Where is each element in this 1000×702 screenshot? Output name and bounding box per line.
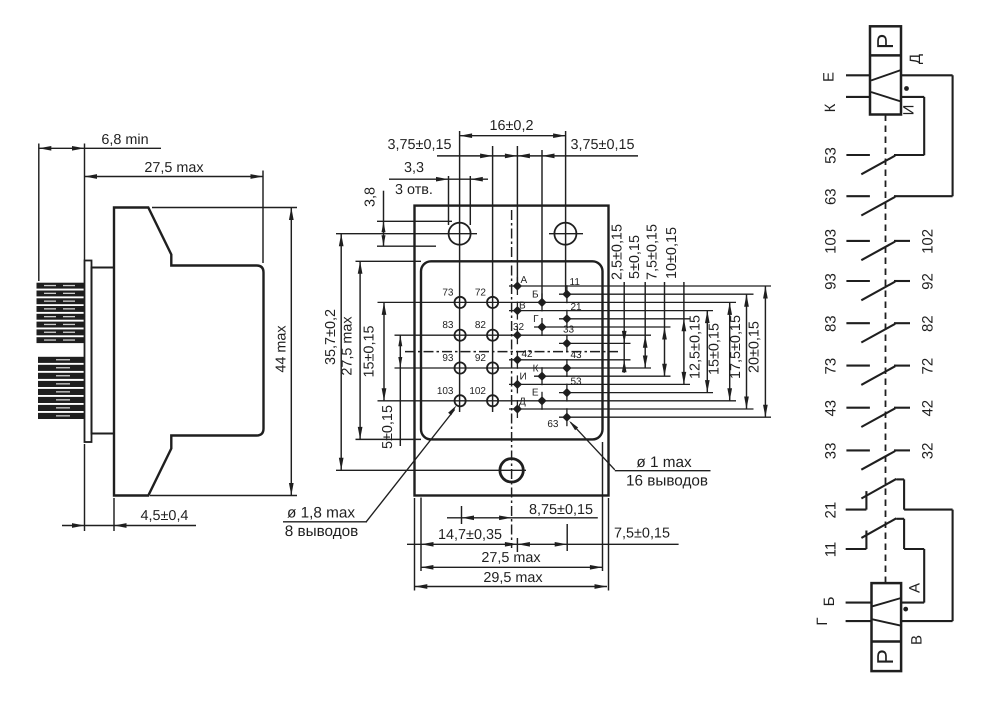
svg-text:44 max: 44 max (274, 325, 290, 373)
svg-text:102: 102 (469, 386, 486, 397)
svg-text:27,5 max: 27,5 max (144, 160, 204, 176)
svg-text:5±0,15: 5±0,15 (627, 235, 643, 279)
wire К (822, 97, 870, 112)
svg-text:21: 21 (823, 502, 840, 519)
coil polarity dot (top) (904, 86, 909, 91)
dimension 5±0,15 (big pin row pitch) (380, 335, 402, 449)
svg-text:42: 42 (920, 400, 937, 417)
svg-text:20±0,15: 20±0,15 (747, 321, 763, 373)
svg-text:72: 72 (475, 287, 487, 298)
dimension 16±0,2 (hole spacing) (460, 118, 566, 138)
contact 103/102 (823, 229, 937, 260)
dimension 17,5±0,15 (728, 294, 749, 409)
coil polarity dot (bottom) (903, 607, 908, 612)
wire Д (901, 54, 953, 196)
pin 93 (442, 353, 465, 374)
dimension 35,7±0,2 (hole row spacing) (323, 234, 526, 471)
pin 102 (469, 386, 498, 407)
relay body outline (rounded) (421, 261, 603, 439)
svg-text:103: 103 (437, 386, 454, 397)
pin 63 (547, 408, 571, 430)
pin 43 (562, 350, 582, 377)
svg-text:73: 73 (823, 358, 840, 375)
svg-text:3,75±0,15: 3,75±0,15 (388, 137, 452, 153)
upper pin stack (8 leads) (37, 283, 85, 343)
contact 33/32 (823, 443, 937, 470)
svg-text:11: 11 (570, 277, 581, 288)
wire В (901, 510, 953, 645)
svg-text:17,5±0,15: 17,5±0,15 (728, 315, 744, 379)
dimension O3,3 3 holes (389, 160, 488, 225)
svg-text:93: 93 (823, 273, 840, 290)
svg-text:12,5±0,15: 12,5±0,15 (688, 315, 704, 379)
dimensions 14,7±0,35 and 7,5±0,15 (407, 498, 679, 572)
svg-text:43: 43 (571, 350, 583, 361)
mounting hole left (O3,3) (449, 223, 471, 245)
pin А (513, 275, 528, 295)
svg-text:32: 32 (513, 322, 525, 333)
svg-text:А: А (907, 583, 924, 593)
dimension 44 max (height) (150, 208, 297, 496)
contact 43/42 (823, 400, 937, 427)
contact 93/92 (823, 273, 937, 300)
svg-text:83: 83 (442, 320, 454, 331)
mounting step block (92, 268, 115, 434)
svg-text:15±0,15: 15±0,15 (706, 323, 722, 375)
svg-text:63: 63 (823, 188, 840, 205)
svg-text:33: 33 (823, 443, 840, 460)
lower pin stack (8 leads) (38, 357, 85, 419)
dimension 2,5±0,15 (610, 224, 627, 373)
svg-text:Д: Д (907, 54, 924, 64)
contact 63 (823, 188, 953, 215)
horizontal centreline (dash-dot) (405, 351, 618, 353)
svg-text:21: 21 (571, 302, 583, 313)
svg-text:4,5±0,4: 4,5±0,4 (141, 508, 189, 524)
extension line column B (541, 150, 543, 303)
svg-text:43: 43 (823, 400, 840, 417)
mounting hole right (O3,3) (554, 223, 576, 245)
svg-text:Р: Р (872, 649, 898, 664)
svg-text:В: В (519, 301, 526, 312)
pin 11 (562, 277, 580, 303)
armature link (dashed) (885, 115, 887, 584)
extension line column A (516, 146, 518, 287)
pin 32 (513, 322, 525, 344)
pin 103 (437, 386, 466, 407)
svg-text:2,5±0,15: 2,5±0,15 (610, 224, 626, 280)
relay coil P (top, windings Е-К / Д-И) (870, 26, 901, 114)
svg-text:35,7±0,2: 35,7±0,2 (323, 309, 339, 365)
svg-text:3 отв.: 3 отв. (395, 182, 433, 198)
svg-text:10±0,15: 10±0,15 (664, 227, 680, 279)
wire Е (821, 72, 871, 82)
dimension 7,5±0,15 (645, 224, 667, 376)
svg-text:53: 53 (823, 147, 840, 164)
contact 21 (823, 479, 953, 519)
pin В (513, 301, 526, 320)
pin И (513, 372, 527, 394)
svg-text:8,75±0,15: 8,75±0,15 (529, 502, 593, 518)
extension line pin column 72 (492, 146, 494, 412)
svg-text:33: 33 (563, 325, 575, 336)
dimension 10±0,15 (664, 227, 686, 384)
dimension 15±0,15 (706, 302, 732, 400)
pin 72 (475, 287, 498, 308)
svg-text:16 выводов: 16 выводов (626, 472, 708, 489)
svg-text:К: К (533, 364, 539, 375)
svg-text:27,5 max: 27,5 max (481, 550, 541, 566)
extension line through right hole / column 11 (565, 131, 567, 295)
pin Д (513, 397, 526, 419)
dimension 20±0,15 (747, 286, 768, 417)
wire Г (814, 617, 872, 625)
dimension 27,5 max (side view width) (85, 160, 264, 263)
contact 53 (823, 147, 925, 174)
svg-text:72: 72 (920, 358, 937, 375)
svg-text:А: А (521, 275, 528, 286)
svg-text:14,7±0,35: 14,7±0,35 (438, 527, 502, 543)
svg-text:Е: Е (532, 388, 539, 399)
svg-text:29,5 max: 29,5 max (483, 570, 543, 586)
svg-text:Б: Б (821, 596, 838, 606)
svg-text:53: 53 (571, 377, 583, 388)
svg-text:Р: Р (872, 34, 898, 49)
pin 73 (442, 287, 465, 308)
pin 83 (442, 320, 465, 341)
svg-text:И: И (520, 372, 527, 383)
pin 53 (562, 377, 582, 402)
extension line through left hole / pin column 73 (459, 131, 461, 412)
svg-text:27,5 max: 27,5 max (340, 316, 356, 376)
svg-text:92: 92 (920, 273, 937, 290)
svg-text:63: 63 (547, 419, 559, 430)
svg-text:ø 1 max: ø 1 max (636, 454, 692, 471)
dimension 4,5±0,4 (flange thickness) (62, 444, 196, 531)
contact 11 (823, 518, 925, 557)
pin 42 (513, 349, 533, 369)
svg-text:3,8: 3,8 (363, 187, 379, 207)
relay body outline (side view) (114, 208, 264, 496)
vertical centreline (dash-dot) (511, 210, 513, 548)
dimension 12,5±0,15 (688, 311, 710, 393)
dimension 6,8 min (39, 132, 161, 281)
row extension lines of contact grid (378, 286, 772, 417)
svg-text:16±0,2: 16±0,2 (490, 118, 534, 134)
svg-text:103: 103 (823, 229, 840, 254)
svg-text:В: В (909, 635, 926, 645)
svg-text:Е: Е (821, 72, 838, 82)
svg-text:Г: Г (814, 617, 831, 625)
svg-text:32: 32 (920, 443, 937, 460)
svg-text:5±0,15: 5±0,15 (380, 405, 396, 449)
svg-text:Г: Г (533, 314, 539, 325)
svg-text:93: 93 (442, 353, 454, 364)
pin Г (533, 314, 547, 336)
svg-text:ø 1,8 max: ø 1,8 max (287, 505, 355, 522)
wire И (901, 97, 925, 155)
pin К (533, 364, 547, 386)
dimension 27,5 max (body height) (340, 261, 422, 439)
flange plate (85, 261, 92, 443)
svg-text:Д: Д (519, 397, 526, 408)
pin Б (532, 290, 547, 312)
svg-text:15±0,15: 15±0,15 (362, 326, 378, 378)
svg-text:102: 102 (920, 229, 937, 254)
dimensions 3,75±0,15 (pin column pitch) (388, 137, 638, 158)
dimension 3,8 (hole edge distance) (363, 187, 453, 246)
pin 21 (562, 302, 582, 328)
svg-text:7,5±0,15: 7,5±0,15 (614, 526, 670, 542)
base plate outline (415, 206, 609, 496)
wire Б (821, 596, 872, 606)
svg-text:82: 82 (475, 320, 487, 331)
svg-text:3,3: 3,3 (404, 160, 424, 176)
dimension 27,5 max (body width) (421, 442, 603, 571)
svg-text:11: 11 (823, 542, 840, 558)
leader note O1,8 max / 8 выводов (points to pin 103) (283, 405, 457, 539)
leader note O1 max / 16 выводов (points to pin 63) (569, 421, 710, 490)
svg-text:К: К (822, 103, 839, 112)
svg-text:82: 82 (920, 315, 937, 332)
contact 73/72 (823, 358, 937, 385)
dimension 29,5 max (plate width) (415, 498, 609, 591)
pin Е (532, 388, 547, 410)
svg-text:7,5±0,15: 7,5±0,15 (645, 224, 661, 280)
svg-text:42: 42 (522, 349, 534, 360)
pin 92 (475, 353, 498, 374)
svg-text:73: 73 (442, 287, 454, 298)
mounting hole bottom (O3,3) (500, 459, 523, 482)
svg-text:3,75±0,15: 3,75±0,15 (571, 137, 635, 153)
svg-text:И: И (901, 105, 918, 116)
dimension 8,75±0,15 (447, 502, 598, 524)
svg-text:6,8 min: 6,8 min (101, 132, 148, 148)
svg-text:83: 83 (823, 315, 840, 332)
svg-text:Б: Б (532, 290, 539, 301)
relay coil P (bottom, windings Б-А / Г-В) (872, 583, 902, 671)
pin 82 (475, 320, 498, 341)
svg-text:92: 92 (475, 353, 487, 364)
dimension 5±0,15 (627, 235, 648, 368)
wire А (901, 549, 924, 603)
pin 33 (562, 325, 574, 353)
svg-text:8 выводов: 8 выводов (285, 523, 359, 540)
contact 83/82 (823, 315, 937, 342)
dimension 15±0,15 (big pin rows) (362, 302, 387, 400)
hole centrelines (443, 233, 477, 235)
